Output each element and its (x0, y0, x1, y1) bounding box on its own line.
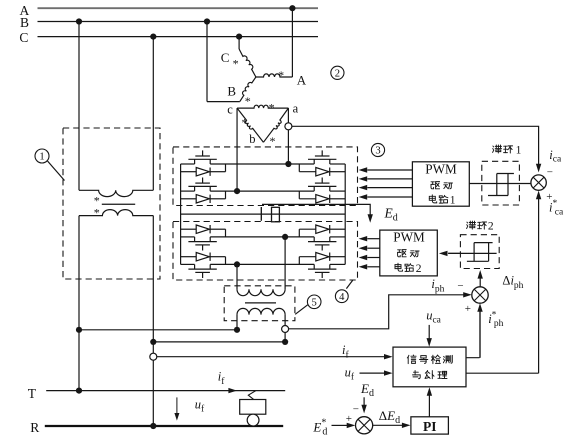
svg-text:E*d: E*d (312, 417, 327, 437)
wire diode row right rail lead (330, 198, 346, 200)
wire C to transformer T1 primary (152, 37, 154, 191)
antiparallel diode (196, 225, 209, 233)
gate lead (202, 272, 204, 278)
svg-text:iph: iph (431, 277, 444, 295)
wire T1 secondary right to R bus (152, 216, 154, 426)
svg-text:*: * (242, 116, 248, 130)
wire DC link middle bus (181, 213, 346, 215)
wire bridge4 top row to T5 right end (284, 237, 286, 289)
gate drive line to bridge3 (367, 169, 412, 171)
wire diode row right rail lead (330, 256, 346, 258)
transformer T1 core (102, 203, 135, 205)
label dianlu2 (box2) (395, 263, 402, 271)
drain lead drop (329, 237, 331, 242)
gate bar (315, 182, 330, 184)
channel bar (188, 158, 216, 160)
wire T5 secondary left down (236, 315, 238, 330)
wire i_ph into junction2 (289, 295, 464, 329)
svg-text:if: if (342, 343, 349, 361)
diode cathode bar (209, 225, 211, 233)
wire diode row left rail lead (181, 256, 197, 258)
transformer T5 core (245, 302, 276, 304)
diode cathode bar (329, 168, 331, 176)
dashed box hysteresis comparator 2 (460, 235, 499, 269)
wire bridge4 bottom row to T5 left end (236, 264, 238, 289)
source lead drop (313, 186, 315, 191)
svg-text:−: − (457, 280, 463, 292)
E_d measurement line (262, 204, 370, 215)
dashed box converter bridge 4 (173, 222, 358, 281)
dashed box converter bridge 3 (173, 147, 358, 206)
gate drive line to bridge4 (367, 238, 380, 240)
svg-text:i*ph: i*ph (488, 310, 503, 329)
source lead drop (194, 237, 196, 242)
wire switch row main right (330, 236, 345, 238)
wire switch row main mid (210, 236, 314, 238)
wire A to wye winding (291, 8, 293, 77)
svg-text:uf: uf (345, 365, 355, 382)
gate lead (202, 245, 204, 251)
drain lead drop (329, 159, 331, 164)
wire u_ca into signal box top (428, 325, 430, 339)
node dot tap to line2 (282, 339, 288, 345)
wire phase bus C (38, 36, 319, 38)
gate drive line to bridge4 (367, 266, 380, 268)
wire diode stub right unit (298, 191, 300, 199)
gate drive line to bridge4 (367, 257, 380, 259)
label yuchuli (413, 371, 421, 379)
diode cathode bar (209, 195, 211, 203)
wire feeder line1 (B-phase vert to T5) (79, 329, 237, 331)
callout circle 5 (307, 295, 321, 309)
svg-text:PWM: PWM (425, 161, 457, 176)
wire diode row right link (299, 171, 316, 173)
label qudong (box1) (431, 182, 440, 189)
callout circle 4 (335, 290, 348, 303)
wire i_ca_ref into junction1 from below (538, 198, 540, 373)
wye winding phase C leg (239, 49, 256, 77)
source lead drop (194, 159, 196, 164)
svg-text:2: 2 (488, 221, 494, 233)
diode cathode bar (209, 168, 211, 176)
gate drive line to bridge3 (367, 187, 412, 189)
svg-text:−: − (547, 167, 553, 179)
hysteresis symbol 2 (467, 243, 493, 262)
wye winding phase A leg (256, 74, 293, 77)
wire diode stub left unit (225, 191, 227, 199)
current sensor tap circle on delta a (285, 123, 292, 130)
transformer T1 secondary winding (79, 210, 153, 216)
transformer T1 primary winding (79, 190, 153, 196)
svg-text:B: B (227, 83, 236, 98)
delta winding right side a-b (263, 108, 288, 142)
antiparallel diode (196, 253, 209, 261)
callout pointer line 5 (295, 305, 308, 315)
block PI regulator (411, 417, 449, 434)
channel bar (308, 241, 336, 243)
arrow u_f voltage (176, 397, 178, 413)
wire diode row left link (210, 171, 225, 173)
wire diode row left rail lead (181, 198, 197, 200)
wire switch row main left (181, 236, 195, 238)
diode cathode bar (329, 195, 331, 203)
svg-text:ΔEd: ΔEd (379, 408, 400, 426)
svg-text:uca: uca (426, 308, 441, 325)
svg-text:R: R (30, 420, 39, 435)
label zhihuan1 (493, 145, 502, 153)
channel bar (188, 268, 216, 270)
wire diode stub right unit (298, 164, 300, 172)
drain lead drop (209, 264, 211, 269)
wire signal box out1 to junction2 (466, 311, 480, 358)
source lead drop (194, 186, 196, 191)
gate drive line to bridge4 (367, 247, 380, 249)
locomotive body box (240, 400, 266, 415)
channel bar (308, 158, 336, 160)
svg-text:c: c (227, 102, 233, 116)
wye winding phase B leg (207, 101, 240, 103)
source lead drop (313, 159, 315, 164)
wire diode stub left unit (225, 229, 227, 237)
svg-text:b: b (249, 132, 255, 146)
wire i_f measurement line to signal box (157, 356, 385, 358)
dashed box around transformer T5 (224, 286, 295, 321)
current sensor tap circle i_f on C-phase drop (150, 353, 157, 360)
wire PI output up into signal box (428, 395, 430, 417)
node dot line1 at x79 (76, 327, 82, 333)
node dot delta-c to bridge3 bottom row (234, 188, 240, 194)
summing junction 3 (E_d) (356, 417, 373, 434)
block signal detection and processing (393, 347, 466, 387)
diode cathode bar (329, 253, 331, 261)
gate bar (195, 244, 210, 246)
wire switch row main mid (210, 263, 314, 265)
channel bar (188, 185, 216, 187)
wire C to wye winding (238, 37, 240, 49)
transformer T5 secondary winding (237, 308, 285, 314)
block PWM drive circuit 2 (380, 230, 438, 276)
svg-text:−: − (353, 404, 359, 416)
svg-text:*: * (233, 57, 239, 71)
svg-text:1: 1 (450, 195, 456, 207)
wire T rail (46, 390, 285, 392)
svg-text:*: * (94, 206, 100, 220)
node dot A tap x292 (289, 5, 295, 11)
wire hysteresis2 to PWM2 (448, 252, 460, 254)
svg-text:5: 5 (312, 298, 317, 309)
label xinhaojiance (407, 355, 416, 364)
node dot delta-a to bridge3 top row (285, 161, 291, 167)
antiparallel diode (316, 195, 329, 203)
svg-text:ica: ica (549, 148, 562, 165)
wire i_ca measurement to right (292, 126, 539, 167)
svg-text:2: 2 (335, 69, 340, 80)
gate bar (315, 271, 330, 273)
node dot bridge4 bottom row to transformer T5 (234, 261, 240, 267)
wire DC rail right (shared) (344, 164, 346, 264)
channel bar (188, 241, 216, 243)
svg-text:4: 4 (339, 292, 345, 303)
wire diode row left rail lead (181, 171, 197, 173)
arrow i_ca into junction1 (536, 164, 541, 173)
svg-text:C: C (19, 30, 28, 45)
gate bar (315, 244, 330, 246)
wire junction3 to PI (373, 424, 403, 426)
summing junction 1 (i_ca) (531, 175, 546, 190)
source lead drop (313, 264, 315, 269)
capacitor C1 plate (260, 207, 262, 221)
svg-text:*: * (270, 134, 276, 148)
antiparallel diode (316, 168, 329, 176)
drain lead drop (329, 264, 331, 269)
wire R rail (thick) (45, 425, 283, 427)
svg-text:2: 2 (416, 263, 422, 275)
wire diode stub right unit (298, 229, 300, 237)
wire diode row left link (210, 198, 225, 200)
svg-text:PI: PI (423, 419, 437, 434)
wire diode row left link (210, 228, 225, 230)
label dianlu1 (box1) (429, 195, 436, 203)
antiparallel diode (316, 253, 329, 261)
svg-text:+: + (465, 303, 471, 315)
label qudong (box2) (398, 250, 407, 257)
wire phase bus B (38, 21, 319, 23)
wire junction2 to hysteresis2 (479, 278, 481, 288)
wire delta c to bridge 3 lower leg (236, 108, 238, 191)
svg-text:PWM: PWM (393, 230, 425, 245)
source lead drop (313, 237, 315, 242)
callout pointer line 1 (48, 161, 65, 181)
wire switch row main left (181, 263, 195, 265)
wire diode row left rail lead (181, 228, 197, 230)
svg-text:1: 1 (516, 145, 522, 157)
node dot T1 secondary to T rail (76, 388, 82, 394)
gate lead (321, 150, 323, 156)
svg-text:*: * (278, 68, 284, 82)
gate lead (321, 178, 323, 184)
svg-text:a: a (293, 101, 299, 115)
gate lead (321, 245, 323, 251)
E_d measurement arrow (368, 214, 373, 223)
svg-text:if: if (218, 369, 225, 387)
wire diode row right rail lead (330, 171, 346, 173)
node dot T5 left to feeder line1 (234, 327, 240, 333)
wire diode stub left unit (225, 164, 227, 172)
wire phase bus A (38, 7, 319, 9)
antiparallel diode (196, 168, 209, 176)
dashed box around transformer T1 (63, 128, 160, 279)
gate bar (195, 155, 210, 157)
node dot C tap x239 (236, 34, 242, 40)
callout circle 3 (371, 143, 384, 156)
stub tap circle to line2 (284, 333, 286, 342)
delta winding left side c-b (237, 108, 263, 142)
node dot C tap x153 (150, 34, 156, 40)
current sensor tap circle i_ph (282, 326, 289, 333)
gate lead (202, 178, 204, 184)
antiparallel diode (316, 225, 329, 233)
source lead drop (194, 264, 196, 269)
gate lead (202, 150, 204, 156)
svg-text:C: C (221, 50, 230, 65)
svg-text:*: * (245, 94, 251, 108)
wire delta a to current tap (287, 108, 289, 164)
wire T5 secondary right down (284, 315, 286, 326)
wire signal box out2 to junction1 (466, 372, 539, 374)
svg-text:1: 1 (39, 152, 44, 163)
drain lead drop (209, 237, 211, 242)
dashed box hysteresis comparator 1 (482, 161, 520, 205)
wire switch row main mid (210, 190, 314, 192)
wire B to wye winding (206, 22, 208, 102)
capacitor C1 body rectangle (272, 207, 280, 222)
block PWM drive circuit 1 (412, 162, 469, 206)
wire u_f input arrow (360, 372, 385, 374)
node dot line2 at x153 (150, 339, 156, 345)
antiparallel diode (196, 195, 209, 203)
delta winding top side c-a (237, 105, 288, 108)
svg-text:i*ca: i*ca (549, 199, 564, 218)
wire switch row main left (181, 163, 195, 165)
gate drive line to bridge3 (367, 178, 412, 180)
callout circle 1 (35, 149, 49, 163)
summing junction 2 (i_ph) (472, 287, 488, 303)
callout pointer line 4 (346, 280, 352, 288)
node dot B tap x207 (204, 18, 210, 24)
wire diode row right link (299, 256, 316, 258)
svg-text:A: A (297, 73, 307, 88)
svg-text:Δiph: Δiph (502, 274, 523, 292)
diode cathode bar (329, 225, 331, 233)
wire T1 secondary left to T bus (78, 216, 80, 391)
callout circle 2 (331, 66, 344, 79)
svg-text:B: B (20, 15, 29, 30)
diode cathode bar (209, 253, 211, 261)
locomotive wheel circle (247, 414, 259, 426)
wire diode row right link (299, 228, 316, 230)
wire switch row main right (330, 263, 345, 265)
gate bar (195, 182, 210, 184)
wire diode row left link (210, 256, 225, 258)
svg-text:T: T (28, 386, 37, 401)
wire E_d_ref into junction3 (332, 424, 348, 426)
node dot B tap x79 (76, 18, 82, 24)
arrow i_f on T rail (228, 388, 237, 393)
svg-text:Ed: Ed (384, 206, 398, 224)
drain lead drop (209, 159, 211, 164)
wire B to transformer T1 primary (78, 22, 80, 191)
hysteresis symbol 1 (488, 174, 514, 196)
svg-text:3: 3 (375, 146, 380, 157)
wire through hysteresis 2 (448, 252, 496, 254)
gate lead (321, 272, 323, 278)
gate bar (195, 271, 210, 273)
wire diode stub left unit (225, 257, 227, 265)
wire i_ph_ref into junction2 from below (479, 311, 481, 358)
channel bar (308, 268, 336, 270)
label zhihuan2 (467, 221, 476, 229)
node dot T1 secondary to R rail (150, 423, 156, 429)
drain lead drop (329, 186, 331, 191)
gate bar (315, 155, 330, 157)
wire diode row right link (299, 198, 316, 200)
wire switch row main mid (210, 163, 314, 165)
locomotive pantograph zigzag (248, 391, 256, 400)
wire diode stub right unit (298, 257, 300, 265)
wire diode row right rail lead (330, 228, 346, 230)
wire through hysteresis 1 (469, 183, 531, 185)
svg-text:+: + (346, 413, 352, 425)
channel bar (308, 185, 336, 187)
wire switch row main right (330, 190, 345, 192)
node dot bridge4 top row to transformer T5 (282, 234, 288, 240)
svg-text:*: * (269, 100, 275, 114)
wire E_d down into junction3 (363, 397, 365, 406)
wire switch row main left (181, 190, 195, 192)
drain lead drop (209, 186, 211, 191)
svg-text:Ed: Ed (360, 381, 374, 399)
wire switch row main right (330, 163, 345, 165)
wire DC rail left (shared) (180, 164, 182, 264)
wire feeder line2 (C-phase vert to tap) (153, 341, 285, 343)
transformer T5 primary winding (237, 289, 285, 295)
gate drive line to bridge3 (367, 196, 412, 198)
svg-text:uf: uf (195, 398, 205, 415)
